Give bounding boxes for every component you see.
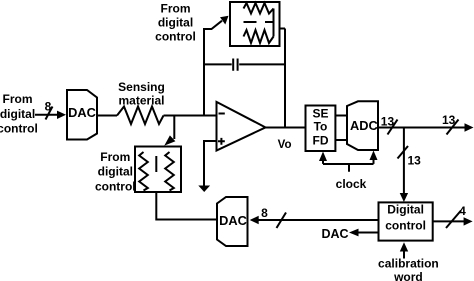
arrowhead into DAC	[57, 111, 66, 119]
wire: digital control to feedback DAC bus 8	[252, 219, 379, 221]
arrowhead clock into SE-FD	[319, 152, 327, 162]
svg-text:From: From	[161, 2, 191, 16]
arrowhead into feedback DAC	[250, 216, 259, 224]
wire: bus branch down to digital control	[403, 128, 405, 195]
programmable resistor box (top feedback)	[230, 2, 280, 46]
wire: feedback left rail up to programmable resistor box	[203, 21, 222, 115]
arrowhead right output	[465, 123, 474, 131]
wire: left input bus into DAC	[35, 114, 59, 116]
wire: resistor to op-amp inverting input	[164, 115, 217, 117]
svg-text:13: 13	[408, 154, 422, 168]
node label: From digital control (bottom left)	[95, 150, 136, 193]
wire: junction branch down to programmable resistor box	[173, 115, 175, 140]
op-amp	[217, 102, 266, 151]
svg-text:digital: digital	[98, 165, 133, 179]
wire: non-inverting input to ground	[204, 141, 217, 186]
svg-text:SE: SE	[312, 106, 328, 120]
bus slash at ADC output	[388, 120, 398, 135]
svg-text:To: To	[314, 120, 328, 134]
svg-text:control: control	[155, 30, 196, 44]
wire: digital control right output bus 4	[433, 220, 465, 222]
arrowhead clock into ADC	[370, 151, 378, 161]
programmable resistor box (bottom left)	[135, 147, 181, 193]
node label: From digital control (left input)	[0, 92, 38, 136]
arrowhead into top resistor box	[220, 16, 229, 25]
svg-text:4: 4	[459, 204, 466, 218]
svg-text:control: control	[385, 218, 426, 232]
svg-text:Sensing: Sensing	[118, 80, 165, 94]
bus slash on input bus	[46, 107, 53, 120]
digital control block	[379, 202, 433, 240]
svg-text:material: material	[118, 93, 164, 107]
DAC (input)	[67, 90, 97, 140]
wire: SE-FD to ADC (differential pair)	[335, 116, 347, 141]
svg-text:Vo: Vo	[278, 139, 292, 151]
op-amp plus sign	[218, 138, 225, 145]
arrowhead toward DAC label	[349, 229, 359, 237]
continuation dashes inside top box	[244, 21, 274, 23]
bus slash far right	[447, 120, 459, 135]
arrowhead into digital control top	[400, 193, 408, 202]
bus slash on output 4	[446, 211, 461, 229]
wire: top box right stub and feedback right rail	[280, 29, 286, 128]
svg-text:word: word	[393, 270, 423, 281]
svg-text:DAC: DAC	[219, 213, 247, 228]
svg-text:Digital: Digital	[387, 203, 424, 217]
node label: calibration word	[378, 256, 439, 281]
svg-text:clock: clock	[336, 177, 367, 191]
svg-text:digital: digital	[158, 16, 193, 30]
label: Sensing material	[118, 80, 165, 107]
svg-text:8: 8	[261, 206, 268, 220]
resistor: sensing material	[117, 107, 164, 125]
wire: resistor box to feedback DAC	[156, 192, 217, 220]
ADC	[347, 101, 378, 150]
svg-text:ADC: ADC	[350, 118, 378, 133]
svg-text:control: control	[0, 122, 38, 136]
resistor inside top box (upper)	[244, 3, 274, 14]
svg-text:From: From	[3, 92, 33, 106]
arrowhead right output 4	[464, 217, 473, 225]
clock distribution wire	[323, 159, 374, 172]
node label: From digital control (top)	[155, 2, 196, 44]
arrowhead into resistor box (top)	[164, 135, 175, 145]
joining bar inside top box	[273, 9, 275, 37]
bus slash on branch	[398, 146, 409, 159]
op-amp minus sign	[219, 113, 225, 115]
resistor inside box (left, vertical)	[139, 152, 148, 191]
bus slash on feedback bus	[277, 213, 287, 229]
SE to FD converter	[306, 106, 336, 152]
arrowhead into digital control bottom	[400, 242, 408, 251]
resistor inside box (right, vertical)	[165, 152, 174, 191]
wire: calibration word input	[403, 252, 405, 259]
DAC (feedback)	[217, 197, 248, 246]
ground	[198, 186, 210, 193]
svg-text:control: control	[95, 179, 136, 193]
wire: digital control to DAC label arrow	[358, 232, 379, 234]
svg-text:From: From	[100, 150, 130, 164]
wire: ADC output bus 13	[378, 127, 466, 129]
capacitor (feedback)	[204, 63, 285, 65]
wire: op-amp output Vo	[266, 127, 306, 129]
continuation dash inside box	[155, 156, 157, 172]
resistor inside top box (lower)	[244, 30, 274, 43]
svg-text:DAC: DAC	[68, 105, 96, 120]
svg-text:FD: FD	[313, 133, 329, 147]
wire: DAC output to sensing resistor	[97, 115, 117, 117]
svg-text:DAC: DAC	[321, 227, 348, 241]
svg-text:digital: digital	[0, 107, 35, 121]
svg-text:calibration: calibration	[378, 256, 439, 270]
